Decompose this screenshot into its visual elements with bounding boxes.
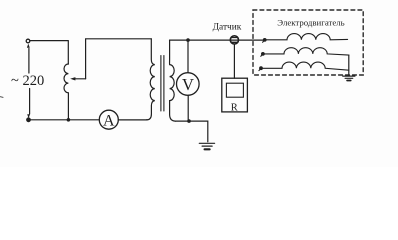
svg-text:A: A	[103, 112, 115, 129]
svg-text:~ 220: ~ 220	[11, 73, 44, 89]
wire ammeter to transformer primary bottom	[118, 119, 147, 121]
ground GND2 (motor frame)	[343, 76, 355, 80]
winding L3	[263, 62, 349, 70]
transformer T2 primary winding	[147, 39, 155, 120]
svg-text:Электродвигатель: Электродвигатель	[277, 17, 344, 27]
wire bottom rail to ground	[176, 121, 208, 142]
wire voltmeter to bottom rail	[187, 95, 189, 121]
node J1 (variac bottom junction)	[67, 118, 71, 122]
wire left vertical lower	[29, 89, 31, 115]
terminal dot phase 2	[261, 52, 265, 56]
device BR1 box	[222, 78, 248, 113]
wire X2 to ammeter	[30, 119, 99, 121]
wiper arrow of T1	[70, 77, 85, 80]
motor enclosure (dashed)	[253, 10, 363, 75]
terminal dot phase 3	[259, 66, 263, 70]
winding L1	[267, 34, 348, 40]
wire X1 to variac top	[30, 40, 68, 42]
transformer T2 secondary winding	[170, 40, 176, 121]
voltmeter PV1	[177, 73, 200, 96]
ammeter PA1	[99, 110, 118, 129]
wire variac top lead	[67, 41, 69, 64]
transformer T2 core	[161, 56, 164, 112]
wire left vertical upper (X1 side)	[28, 49, 30, 74]
node J3 (bottom rail junction)	[187, 119, 191, 123]
node J2 (voltmeter tap)	[186, 38, 190, 42]
ground GND1	[199, 143, 214, 149]
wire XS1 to device R	[233, 44, 235, 78]
winding L2	[265, 48, 349, 55]
svg-text:R: R	[231, 102, 238, 113]
terminal XS1 (sensor pickup)	[230, 36, 238, 44]
wire star point to ground	[348, 55, 350, 75]
wire J2 to voltmeter	[187, 40, 189, 73]
wire wiper to transformer primary top	[86, 39, 152, 79]
svg-text:Датчик: Датчик	[213, 23, 242, 33]
terminal X1 (AC source top)	[26, 39, 30, 48]
scan speck at left edge	[0, 96, 3, 99]
wire secondary top to sensor terminal	[170, 39, 265, 41]
svg-text:V: V	[182, 75, 194, 94]
autotransformer T1 coil	[64, 64, 68, 118]
terminal dot phase 1	[263, 38, 267, 42]
terminal X2 (AC source bottom)	[27, 114, 31, 122]
